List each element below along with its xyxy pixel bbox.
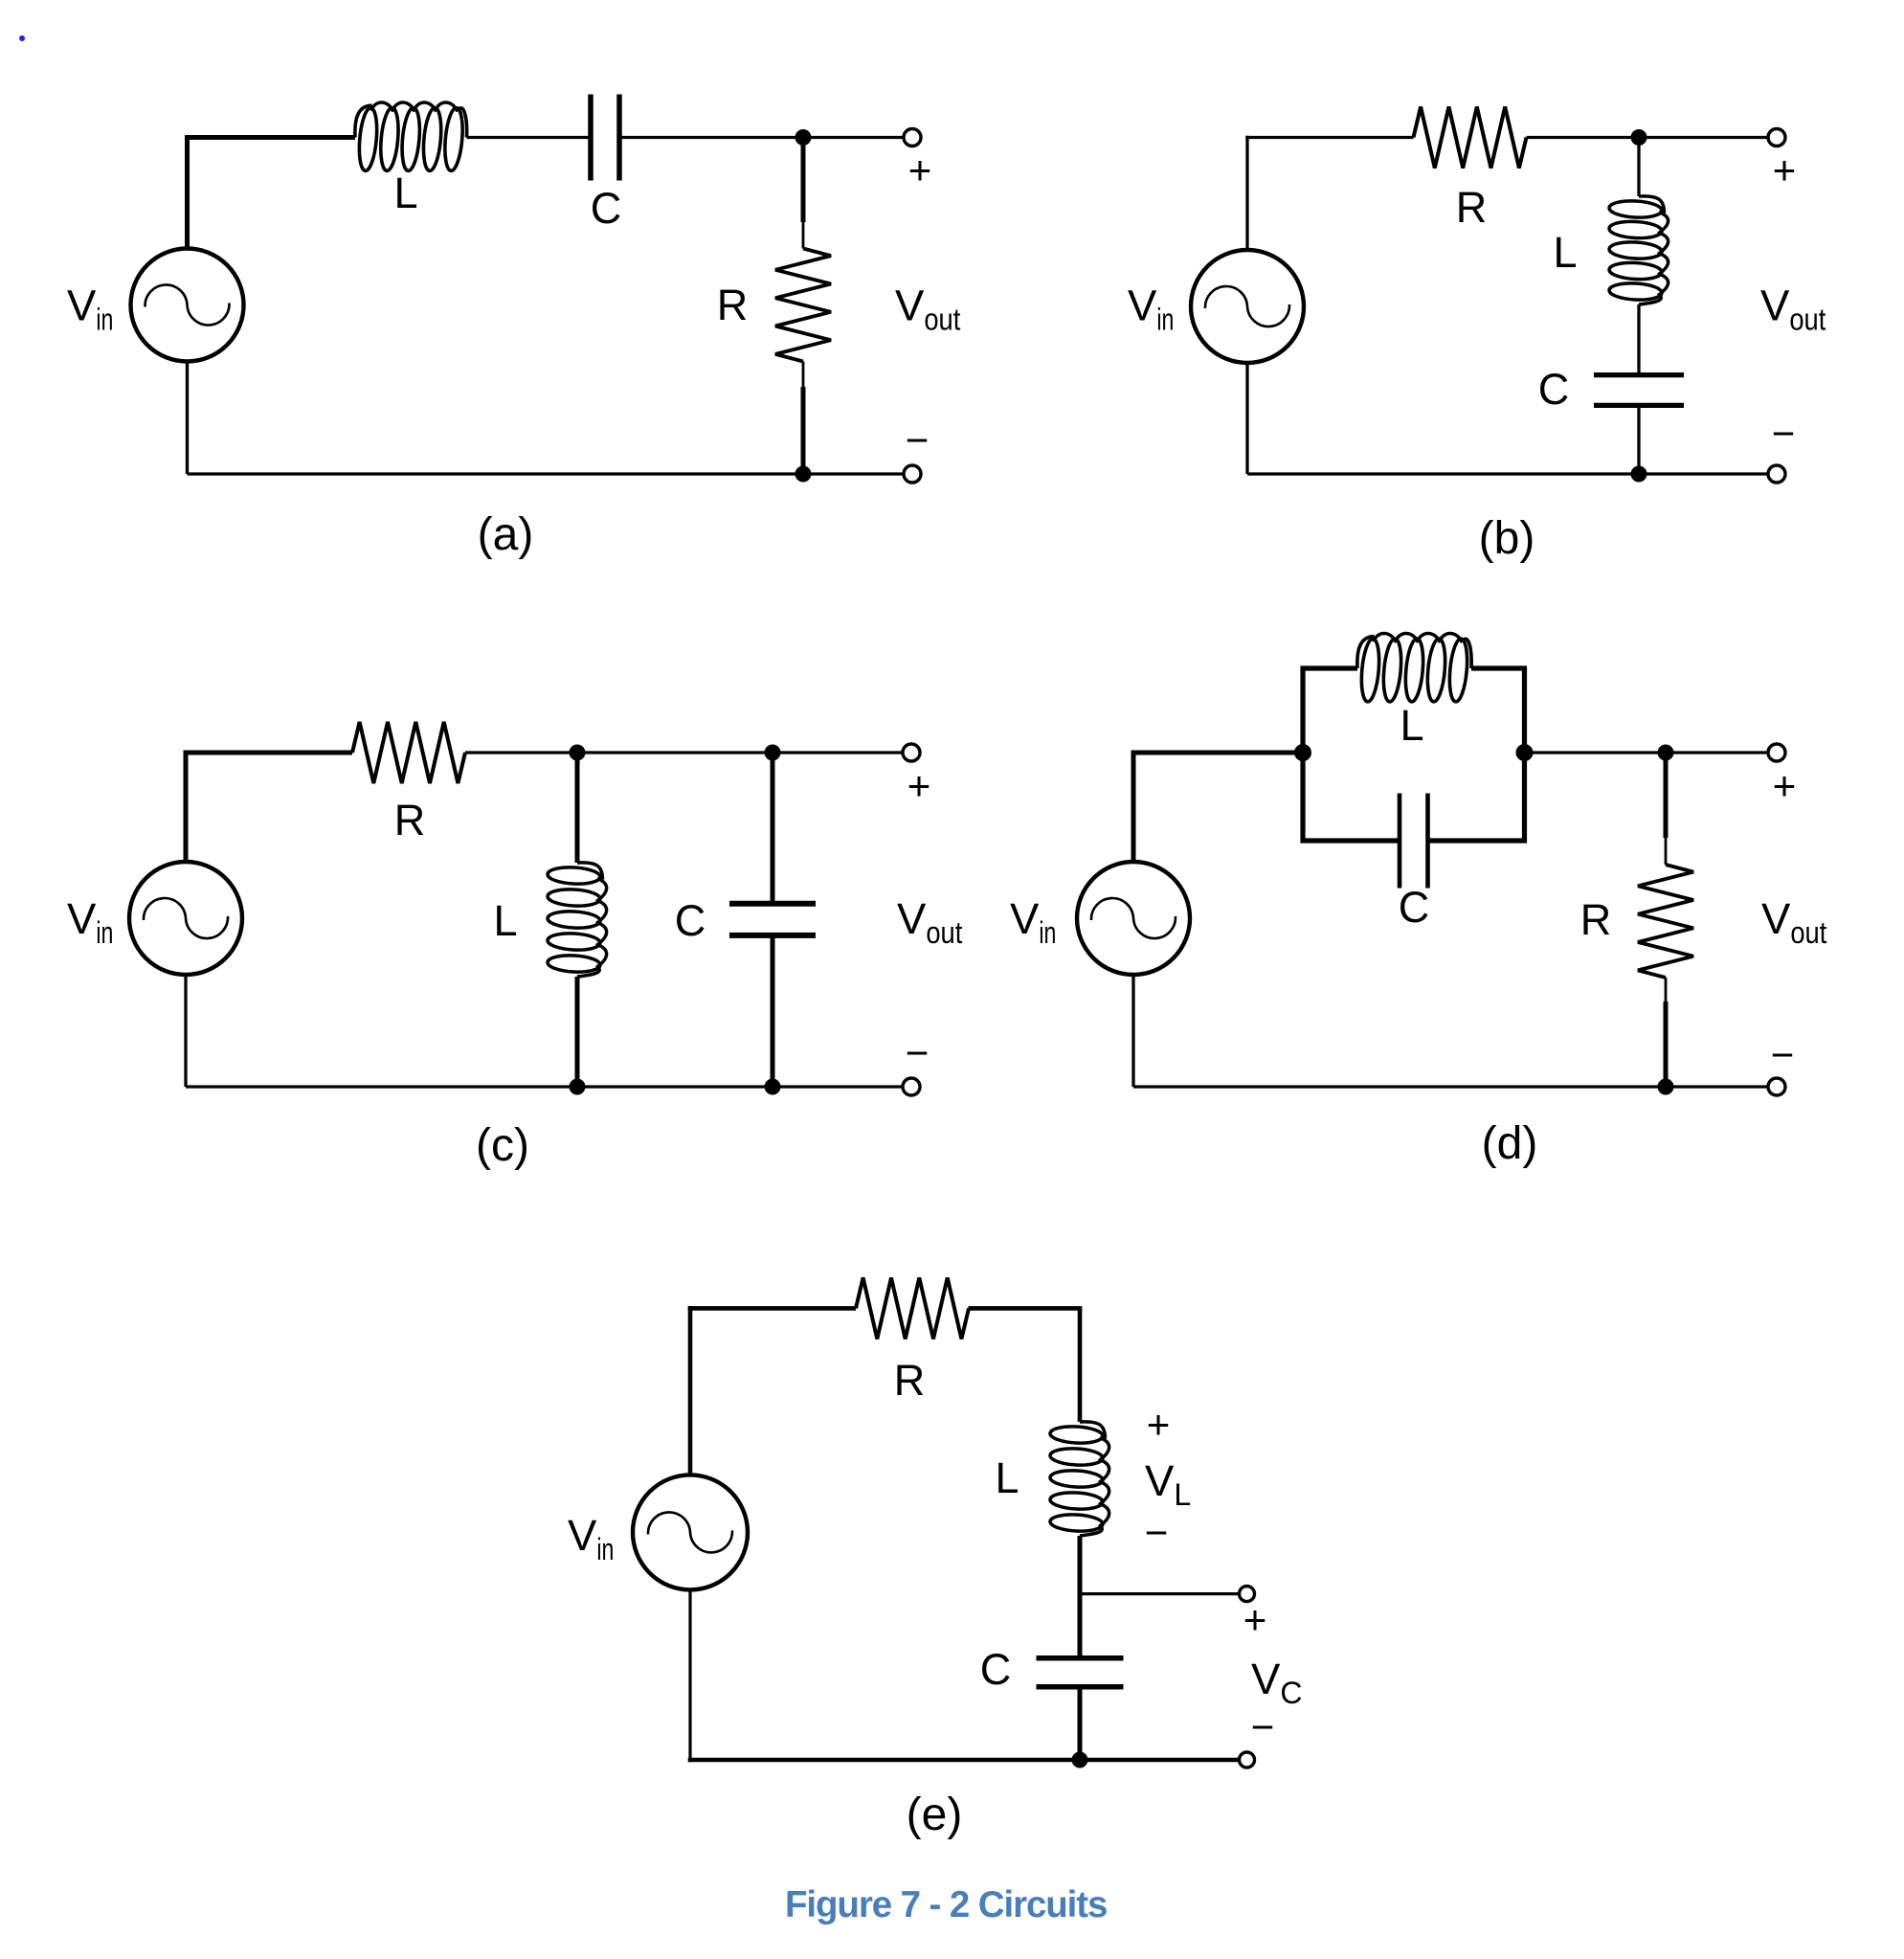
- svg-text:+: +: [1773, 763, 1797, 808]
- junction node bottom of LC branch (b): [1631, 466, 1647, 483]
- junction node bottom of R (d): [1658, 1079, 1674, 1095]
- wire: (d) left vertical: [1131, 751, 1136, 863]
- wire: (d) bottom rail: [1133, 1085, 1777, 1088]
- svg-text:Figure 7 - 2 Circuits: Figure 7 - 2 Circuits: [785, 1884, 1107, 1925]
- AC source Vin (d): [1077, 862, 1190, 975]
- resistor R (c): [352, 722, 465, 783]
- wire: (b) resistor to output: [1527, 136, 1778, 139]
- wire: (a) left vertical from top rail to Vin: [185, 135, 190, 249]
- inductor L (c): [577, 863, 603, 880]
- svg-text:R: R: [717, 281, 749, 329]
- wire: (a) bottom rail: [188, 472, 913, 475]
- wire: (e) node to VC terminal: [1080, 1592, 1247, 1595]
- svg-text:C: C: [591, 184, 622, 233]
- terminal + output (a): [904, 129, 921, 146]
- junction node tank left (d): [1294, 744, 1311, 761]
- wire: (d) main rail Vin to tank: [1131, 751, 1304, 755]
- svg-text:(e): (e): [907, 1790, 963, 1840]
- wire: (b) branch top lead: [1637, 138, 1640, 197]
- terminal - output (a): [904, 465, 921, 483]
- wire: (c) bottom rail: [186, 1085, 911, 1088]
- wire: (a) Vin bottom to bottom rail: [186, 362, 189, 475]
- resistor R (e): [856, 1277, 969, 1339]
- svg-text:−: −: [1251, 1704, 1275, 1749]
- circuit (a): [67, 95, 960, 561]
- capacitor C (c): [729, 901, 816, 907]
- inductor L (e): [1080, 1422, 1106, 1439]
- svg-text:L: L: [995, 1453, 1019, 1502]
- svg-text:+: +: [1243, 1597, 1267, 1642]
- AC source Vin (c): [129, 862, 242, 975]
- svg-text:(c): (c): [476, 1120, 529, 1171]
- capacitor C (b): [1594, 372, 1684, 377]
- circuit (d): [1010, 633, 1826, 1169]
- terminal + output (b): [1768, 129, 1785, 146]
- svg-text:R: R: [394, 796, 426, 844]
- svg-text:+: +: [1773, 147, 1797, 192]
- junction node top of R (a): [795, 129, 812, 146]
- tank box bottom-right (d): [1428, 751, 1525, 841]
- junction node tank right (d): [1516, 744, 1534, 761]
- AC source Vin (b): [1191, 250, 1304, 363]
- wire: (a) inductor to capacitor: [467, 136, 589, 139]
- svg-text:(a): (a): [478, 509, 534, 560]
- wire: (b) Vin bottom to bottom rail: [1245, 363, 1248, 474]
- resistor R (d): [1638, 865, 1693, 978]
- wire: (e) left vertical: [688, 1306, 693, 1475]
- wire: (c) Vin bottom to bottom rail: [184, 975, 187, 1087]
- junction node bottom of L (c): [570, 1079, 586, 1095]
- junction node top of L (c): [570, 745, 586, 761]
- tank box right side (d): [1471, 668, 1525, 753]
- svg-text:−: −: [906, 1030, 930, 1075]
- circuit (b): [1128, 107, 1826, 565]
- svg-text:−: −: [1771, 1032, 1795, 1077]
- svg-text:C: C: [980, 1645, 1012, 1694]
- wire: (a) R top lead: [801, 138, 806, 223]
- wire: (e) resistor to right corner: [969, 1306, 1083, 1311]
- AC source Vin (a): [131, 249, 244, 362]
- wire: (d) R top lead: [1664, 753, 1669, 838]
- wire: (b) bottom rail: [1247, 472, 1777, 475]
- AC source Vin (e): [633, 1475, 748, 1589]
- svg-text:−: −: [906, 417, 930, 462]
- inductor L (d): [1357, 637, 1375, 669]
- svg-text:L: L: [1553, 228, 1577, 277]
- svg-text:+: +: [1147, 1402, 1171, 1447]
- wire: (c) resistor to L node: [465, 751, 911, 754]
- svg-text:(d): (d): [1482, 1118, 1538, 1169]
- wire: (b) inductor to capacitor: [1637, 304, 1640, 372]
- svg-text:L: L: [493, 896, 517, 945]
- wire: (c) C branch bottom lead: [771, 937, 775, 1087]
- circuit (c): [67, 722, 962, 1171]
- wire: (e) top rail to resistor: [688, 1306, 856, 1311]
- terminal + output (d): [1768, 744, 1785, 761]
- terminal - output (c): [903, 1078, 920, 1095]
- svg-text:−: −: [1772, 411, 1796, 456]
- capacitor C (e): [1037, 1655, 1124, 1661]
- svg-text:+: +: [908, 147, 932, 192]
- svg-text:C: C: [1399, 883, 1430, 932]
- wire: (a) R bottom lead: [802, 362, 805, 388]
- circuit (e): [568, 1277, 1302, 1840]
- wire: (d) R bottom lead: [1665, 978, 1668, 1002]
- junction node top of C (c): [765, 745, 781, 761]
- wire: (b) left vertical: [1245, 136, 1248, 250]
- junction node top of R (d): [1658, 745, 1674, 761]
- terminal + VC (e): [1240, 1587, 1255, 1602]
- capacitor C (a): [588, 95, 594, 181]
- terminal + output (c): [903, 744, 920, 761]
- wire: (e) Vin bottom to bottom rail: [688, 1589, 691, 1762]
- wire: (c) C branch top lead: [771, 753, 775, 901]
- wire: (e) bottom rail: [688, 1758, 1247, 1762]
- wire: (c) L branch top lead: [575, 753, 580, 863]
- svg-text:−: −: [1145, 1510, 1169, 1555]
- wire: (a) capacitor to output node: [622, 136, 913, 139]
- svg-text:L: L: [393, 169, 417, 217]
- resistor R (a): [775, 249, 831, 362]
- svg-text:R: R: [1580, 895, 1612, 944]
- tank box left side (d): [1303, 668, 1357, 753]
- junction node bottom of R (a): [795, 466, 812, 483]
- wire: (c) top rail to resistor: [184, 751, 353, 755]
- inductor L (a): [355, 105, 372, 138]
- svg-text:C: C: [1538, 365, 1570, 414]
- resistor R (b): [1414, 107, 1527, 169]
- terminal - output (b): [1768, 465, 1785, 483]
- svg-text:R: R: [1456, 183, 1488, 232]
- svg-text:L: L: [1400, 701, 1423, 750]
- svg-text:+: +: [907, 763, 931, 808]
- junction node bottom of C (c): [765, 1079, 781, 1095]
- wire: (b) top rail to resistor: [1245, 136, 1413, 139]
- capacitor C (d): [1398, 794, 1402, 889]
- wire: (e) inductor to C node: [1078, 1536, 1083, 1657]
- wire: (c) left vertical: [184, 751, 189, 863]
- inductor L (b): [1639, 196, 1665, 214]
- svg-text:C: C: [675, 896, 706, 945]
- wire: (c) L branch bottom lead: [575, 977, 580, 1087]
- stray blue dot mark: [19, 35, 25, 41]
- wire: (a) top rail left segment to inductor: [185, 135, 355, 140]
- junction node bottom of C (e): [1072, 1752, 1088, 1768]
- wire: (d) Vin bottom to bottom rail: [1131, 975, 1134, 1087]
- svg-text:R: R: [894, 1356, 926, 1405]
- wire: (e) capacitor to bottom rail: [1078, 1687, 1083, 1760]
- junction node top of LC branch (b): [1631, 129, 1647, 146]
- wire: (d) tank to R node: [1525, 751, 1778, 754]
- svg-text:(b): (b): [1479, 513, 1535, 564]
- terminal - output (d): [1768, 1078, 1785, 1095]
- wire: (e) right vertical to inductor: [1078, 1308, 1083, 1422]
- terminal - VC (e): [1240, 1752, 1255, 1768]
- tank box bottom-left with capacitor lead (d): [1303, 751, 1400, 841]
- wire: (b) capacitor to bottom rail: [1637, 408, 1640, 474]
